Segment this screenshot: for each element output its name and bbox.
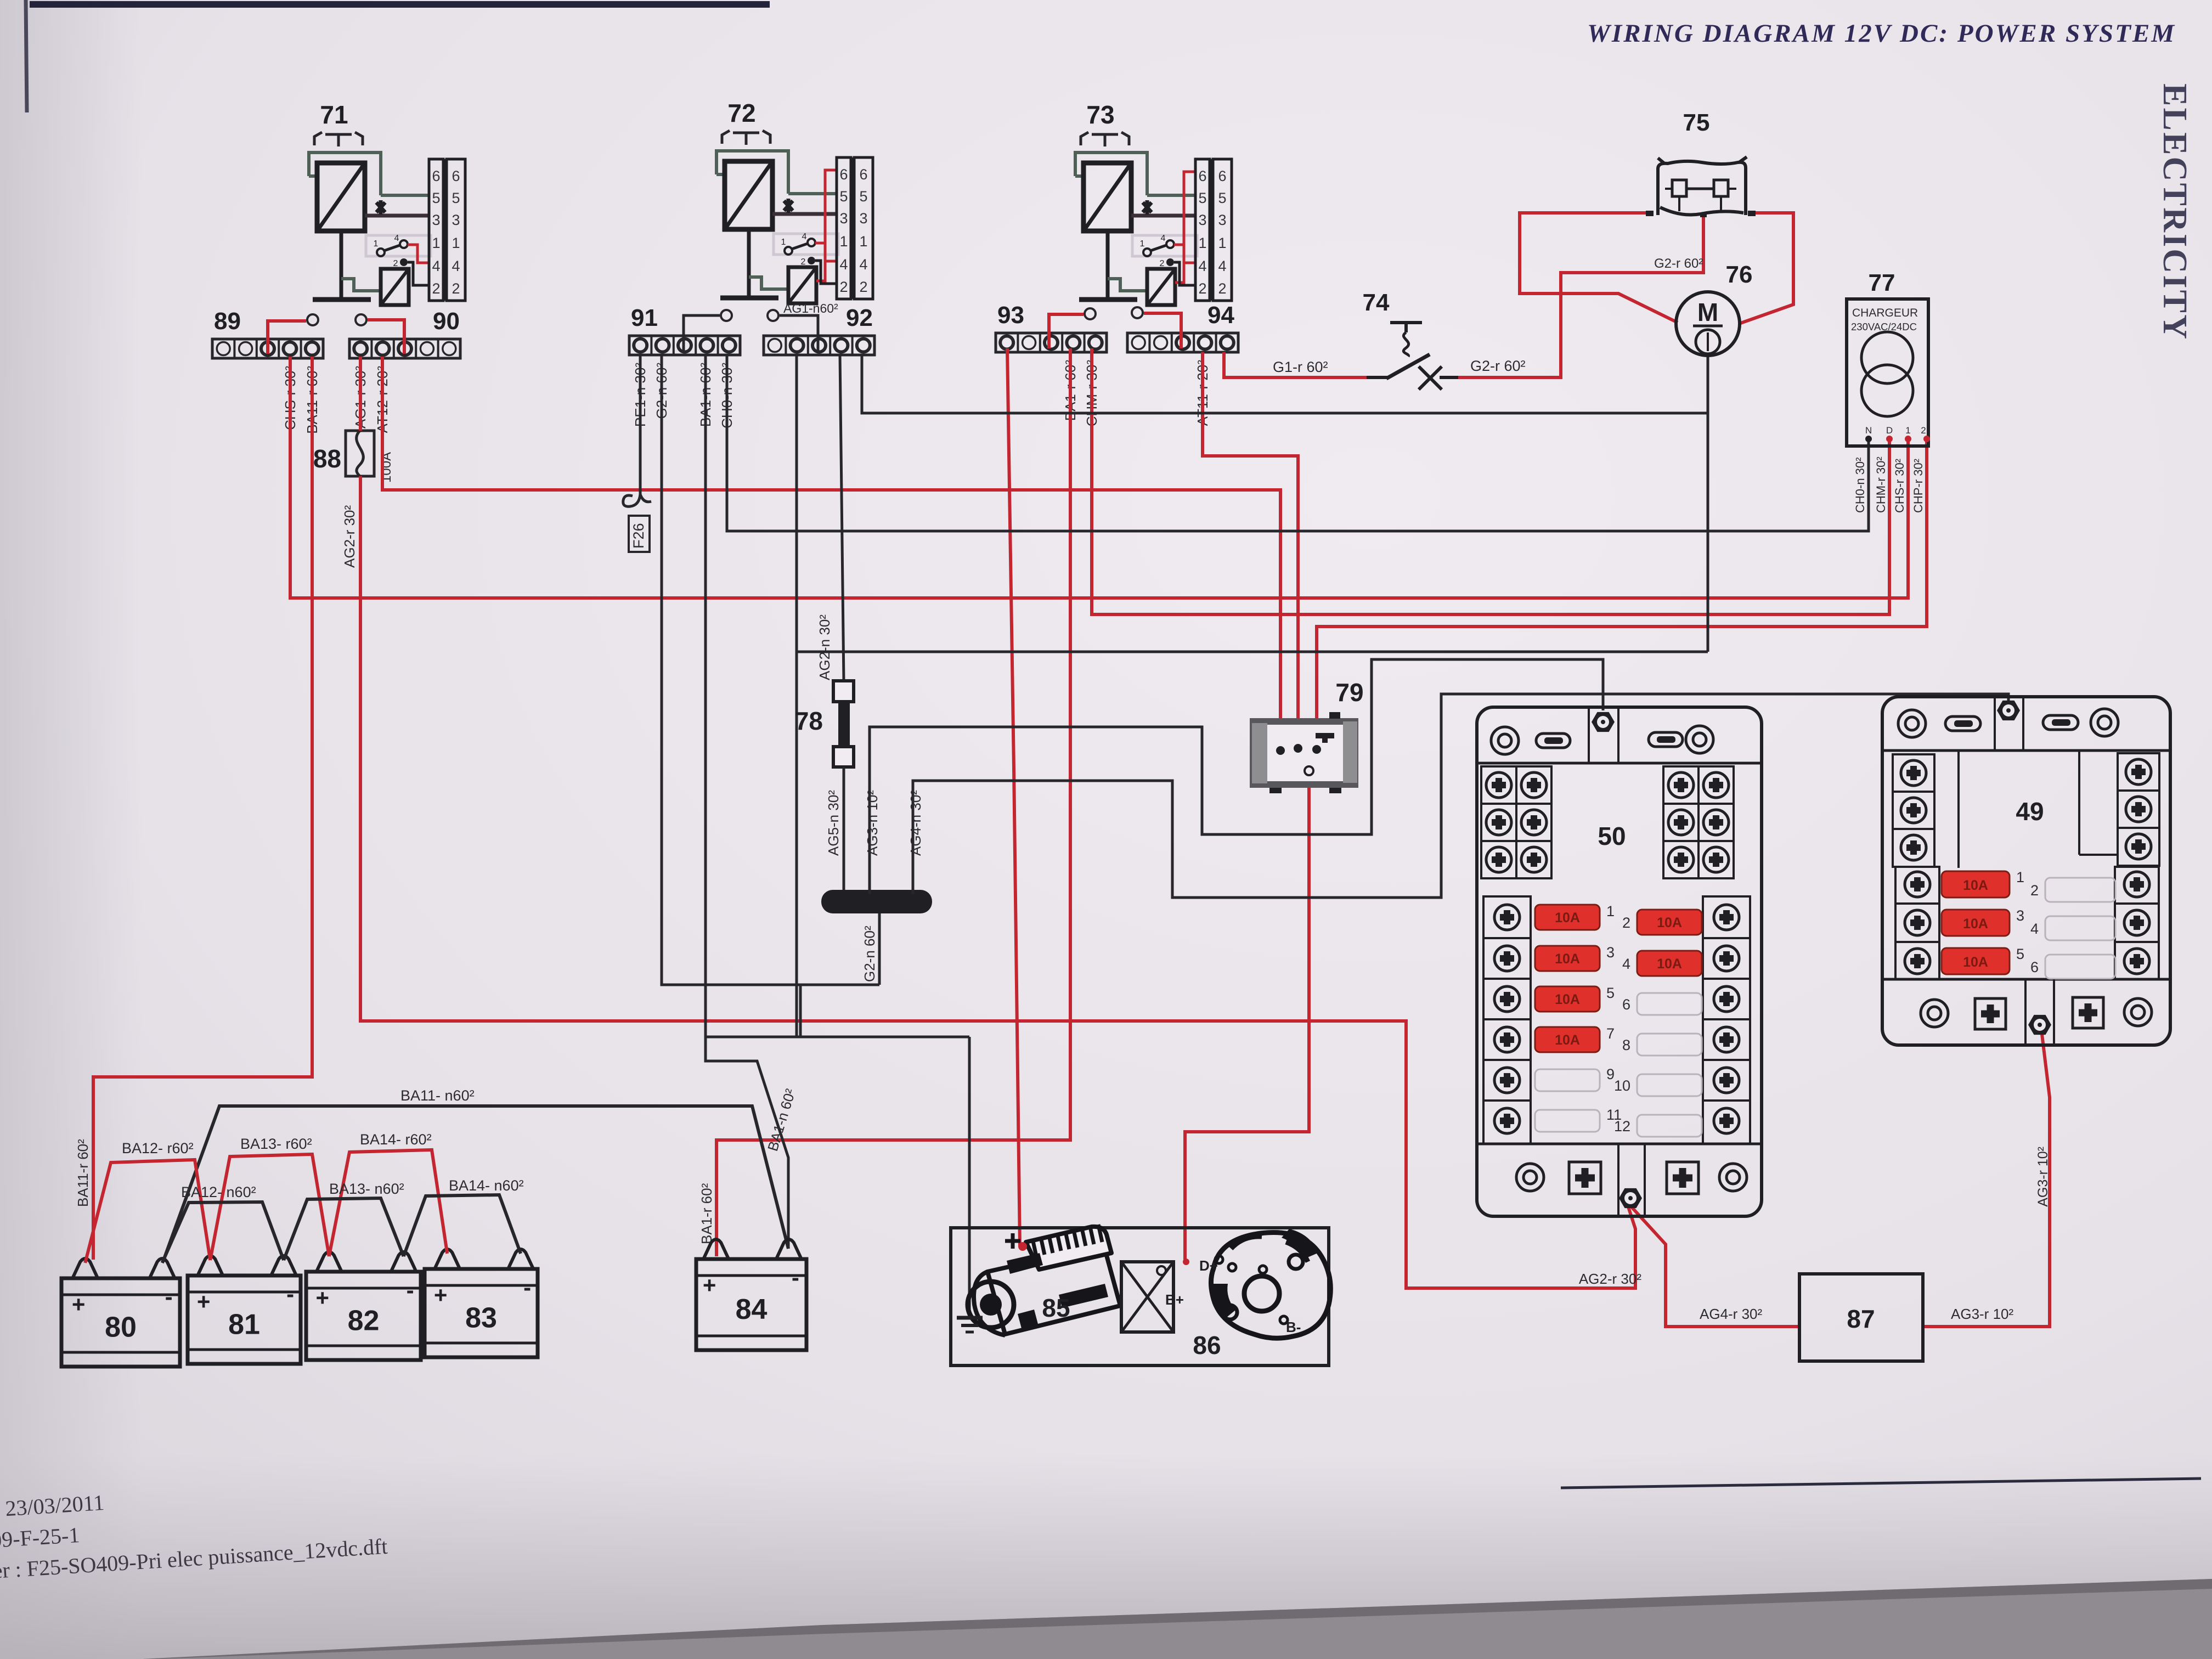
box 49 bottom bolt [2028,1015,2051,1035]
svg-text:2: 2 [839,279,848,295]
wire AG5-n 30² : connector 78 to junction bar [843,767,845,894]
svg-text:89: 89 [214,308,241,335]
svg-text:BA12- r60²: BA12- r60² [122,1140,194,1156]
battery 83 [425,1269,538,1357]
svg-text:CHP-r 30²: CHP-r 30² [1911,459,1925,513]
wire BA1-r 60² : 93.4 to battery 84 + [716,348,1070,1256]
svg-text:+: + [72,1291,86,1317]
svg-text:AG4-r 30²: AG4-r 30² [1700,1306,1762,1322]
svg-text:2: 2 [393,259,398,268]
wire BA11-n 60² : battery 80 - to battery 84 - [163,1106,788,1262]
module 73 bolt circles [1085,308,1096,319]
svg-text:3: 3 [452,212,460,228]
battery 80 [61,1278,180,1367]
svg-text:230VAC/24DC: 230VAC/24DC [1851,321,1917,332]
staircase link to negative bus [705,985,800,1037]
svg-text:B+: B+ [1165,1291,1184,1308]
svg-text:1: 1 [374,239,379,249]
svg-text:G2-r 60²: G2-r 60² [1654,256,1703,271]
svg-text:3: 3 [2016,907,2024,924]
wire BA1-n 60² : 91.4 to battery 84 - [706,355,788,1249]
motor 76 negative down to bus [1707,356,1709,413]
fuse 88 100A [346,431,374,476]
box 87 [1799,1274,1923,1361]
svg-text:AG3-r 10²: AG3-r 10² [2035,1147,2051,1207]
fuse reference F26 [623,494,651,506]
svg-text:1: 1 [839,233,848,250]
svg-text:4: 4 [1161,234,1166,243]
box 49 upper screw terminals [1893,754,1934,867]
svg-text:3: 3 [1606,944,1615,961]
svg-text:G2-n 60²: G2-n 60² [861,926,878,982]
svg-text:N: N [1865,425,1872,436]
black link 91.3 to bolt circle [684,315,720,351]
wire PE1-n 30² : 91.1 to F26 [639,355,642,494]
svg-text:2: 2 [432,280,440,297]
svg-text:+: + [316,1285,330,1311]
svg-text:1: 1 [432,235,440,251]
fuse box 49 [1882,697,2170,1045]
svg-text:5: 5 [1218,190,1226,206]
svg-text:2: 2 [2030,882,2039,899]
wire AT12-r 20² : 90.2 to connector 79 pin 1 [382,357,1280,749]
battery 84 [696,1259,806,1350]
svg-text:+: + [197,1289,211,1314]
svg-text:D: D [1886,425,1893,436]
wire BA14-r 60² : 82+ to 83+ [329,1150,447,1256]
wire relay 75 left terminal to motor 76 [1520,213,1678,323]
svg-text:77: 77 [1869,269,1895,296]
svg-text:1: 1 [1218,235,1226,251]
svg-text:BA11- n60²: BA11- n60² [400,1087,475,1104]
alternator 86 artwork [1211,1233,1330,1339]
svg-text:BA11-r 60²: BA11-r 60² [75,1139,91,1207]
wire BA13-r 60² : 81+ to 82+ [210,1154,329,1260]
svg-text:72: 72 [727,99,755,127]
svg-text:83: 83 [465,1302,497,1334]
wire CH0-n 30² : 91.5 to charger pin N [727,355,1869,531]
svg-text:4: 4 [802,232,807,241]
wire AG4-r 30² : box 50 bolt to box 87 [1630,1206,1799,1327]
wire CHM-r 30² : 93.5 to charger pin D [1092,348,1889,614]
svg-text:1: 1 [781,238,786,247]
svg-text:2: 2 [452,280,460,297]
svg-text:1: 1 [2016,869,2024,885]
svg-text:AG3-r 10²: AG3-r 10² [1951,1306,2013,1322]
svg-text:84: 84 [736,1294,768,1325]
svg-text:B-: B- [1286,1319,1301,1335]
svg-text:4: 4 [432,258,440,274]
svg-text:4: 4 [394,234,399,243]
svg-text:2: 2 [1198,280,1206,297]
svg-text:6: 6 [1198,168,1206,184]
svg-text:90: 90 [433,308,460,335]
box 50 bottom row [1516,1164,1544,1191]
svg-text:1: 1 [859,233,867,250]
red link bolt circle to 94.3 [1144,313,1181,348]
svg-text:94: 94 [1207,302,1234,329]
wire BA12-n 60² : 80- to 81- [162,1202,284,1263]
wire AG3-n 10² : junction to fuse box 50 bolt [870,659,1603,894]
wire BA13-n 60² : 81- to 82- [284,1198,404,1260]
svg-text:CHS-r 30²: CHS-r 30² [1893,459,1906,513]
svg-text:88: 88 [313,444,341,473]
svg-text:93: 93 [997,302,1024,329]
svg-text:AG2-n 30²: AG2-n 30² [816,614,833,680]
svg-text:AG3-n 10²: AG3-n 10² [864,790,881,856]
svg-text:BA14- r60²: BA14- r60² [360,1131,432,1148]
wire BA1-r 60² : 93.1 to starter + [1007,348,1020,1246]
wire 92.5 to motor negative bus [862,355,1708,413]
svg-text:2: 2 [1622,915,1630,931]
terminal strip 89 [212,339,323,358]
svg-text:G1-r 60²: G1-r 60² [1273,359,1328,375]
starter motor 85 artwork [974,1245,1120,1335]
svg-text:2: 2 [801,257,806,267]
bottom right rule [1561,1479,2201,1488]
svg-text:+: + [434,1282,448,1308]
svg-text:5: 5 [859,188,867,205]
starter ground [957,1316,983,1320]
svg-text:F26: F26 [630,523,647,549]
svg-text:6: 6 [432,168,440,184]
svg-text:3: 3 [1218,212,1226,228]
battery 82 [306,1272,421,1360]
box 50 fuse rows [1483,896,1531,1144]
svg-text:6: 6 [452,168,460,184]
svg-text:-: - [165,1284,173,1310]
svg-text:2: 2 [1160,259,1165,268]
svg-text:86: 86 [1193,1331,1221,1359]
svg-text:76: 76 [1726,261,1753,288]
svg-text:6: 6 [859,166,867,183]
wire AG4-n 30² : junction to fuse box 49 bolt [913,694,2008,898]
svg-text:AG2-r 30²: AG2-r 30² [341,505,358,568]
svg-text:BA13- n60²: BA13- n60² [329,1181,404,1197]
engine unit box (starter 85 / alternator 86) [951,1228,1329,1365]
svg-text:10A: 10A [1963,878,1988,893]
svg-text:75: 75 [1683,109,1710,136]
inline connector 78 [833,681,854,702]
svg-text:ELECTRICITY: ELECTRICITY [2156,83,2193,341]
svg-text:80: 80 [105,1312,137,1344]
svg-text:M: M [1697,298,1718,326]
box 49 mounting bolt top [1997,701,2020,720]
wire CHP-r 30² : charger pin 2 to connector 79 pin 3 [1317,440,1927,748]
svg-text:2: 2 [1218,280,1226,297]
wire AG1-r 30² : 90.1 to fuse 88 [359,357,362,431]
svg-text:6: 6 [1218,168,1226,184]
svg-text:74: 74 [1363,289,1390,316]
svg-text:5: 5 [452,190,460,206]
terminal strip 94 [1127,333,1238,352]
page bottom edge and table surface [143,1579,2212,1659]
svg-text:4: 4 [1218,258,1226,274]
bottom-left file info text [0,1472,388,1583]
svg-text:3: 3 [1198,212,1206,228]
svg-text:BA14- n60²: BA14- n60² [449,1177,524,1194]
svg-text:1: 1 [1198,235,1206,251]
svg-text:AG1-n60²: AG1-n60² [783,301,838,315]
svg-text:5: 5 [2016,946,2024,962]
red link 89.3 to bolt circle [268,321,306,354]
svg-text:+: + [703,1272,716,1298]
box 50 upper screw terminals [1481,766,1551,878]
svg-text:10A: 10A [1963,955,1988,970]
svg-text:4: 4 [839,256,848,273]
svg-text:1: 1 [1140,239,1145,249]
svg-text:CH0-n 30²: CH0-n 30² [1853,458,1867,513]
svg-text:2: 2 [1921,425,1926,436]
svg-text:4: 4 [1198,258,1206,274]
adjacent page dark bar top [30,1,770,8]
svg-text:5: 5 [1606,985,1615,1001]
svg-text:1: 1 [1606,903,1615,919]
svg-text:8: 8 [1622,1037,1630,1053]
battery 81 [188,1276,301,1364]
svg-text:4: 4 [1622,956,1630,972]
svg-text:50: 50 [1598,822,1626,850]
svg-text:10A: 10A [1657,956,1682,972]
svg-text:-: - [523,1274,531,1300]
svg-text:10A: 10A [1963,916,1988,932]
wire G2-n 60² below junction [878,913,881,985]
svg-text:1: 1 [452,235,460,251]
svg-text:5: 5 [432,190,440,206]
svg-text:49: 49 [2016,797,2044,826]
svg-text:82: 82 [348,1305,380,1337]
svg-text:10: 10 [1614,1077,1630,1094]
svg-text:9: 9 [1606,1066,1615,1082]
red link bolt circle to 90.3 [368,320,404,354]
svg-text:10A: 10A [1555,992,1580,1007]
svg-text:-: - [407,1277,414,1303]
wire AT11-r 20² : 94.4 to connector 79 pin 2 [1203,352,1298,747]
svg-text:-: - [792,1265,799,1290]
module 71 ground bar and bolt circles [307,314,318,325]
svg-text:WIRING DIAGRAM 12V DC: POWER S: WIRING DIAGRAM 12V DC: POWER SYSTEM [1587,19,2175,48]
box 49 fuse rows [1895,867,1939,979]
lower negative bus [797,651,1708,653]
svg-text:5: 5 [839,188,848,205]
svg-text:-: - [286,1281,294,1307]
svg-text:7: 7 [1606,1025,1615,1042]
svg-text:3: 3 [859,210,867,227]
svg-text:4: 4 [2030,921,2039,937]
svg-text:BA1-r 60²: BA1-r 60² [698,1183,715,1244]
wire G2-n 60² : 91.2 to junction bar stub [662,355,879,985]
negative bus to starter ground [968,1037,971,1317]
fuse box 50 [1477,707,1762,1216]
rectifier block [1121,1262,1173,1332]
red link 93.3 to bolt circle [1049,314,1084,348]
box 50 bottom bolt [1619,1188,1642,1208]
svg-text:D+: D+ [1199,1257,1218,1274]
svg-text:G2-r 60²: G2-r 60² [1470,358,1526,374]
svg-text:6: 6 [2030,959,2039,975]
module 72 bolt circles [721,310,732,321]
terminal strip 93 [996,333,1107,352]
svg-text:10A: 10A [1555,951,1580,967]
svg-text:78: 78 [795,707,823,735]
box 49 bottom row [1921,1000,1948,1027]
svg-text:BA12- n60²: BA12- n60² [181,1184,256,1200]
svg-text:AG5-n 30²: AG5-n 30² [825,790,842,856]
svg-text:3: 3 [432,212,440,228]
svg-text:5: 5 [1198,190,1206,206]
wire G2-r 60² : switch 74 to relay 75 [1457,215,1703,377]
wire AG2-r 30² : fuse 88 to fuse box 50 bolt [360,476,1635,1288]
svg-text:3: 3 [839,210,848,227]
svg-text:4: 4 [859,256,867,273]
wire BA12-r 60² : 80+ to 81+ [85,1160,210,1263]
svg-text:12: 12 [1614,1118,1630,1135]
wire BA11-r 60² : 89.5 to battery 80 + [93,357,312,1260]
svg-text:85: 85 [1042,1294,1070,1322]
svg-text:CHM-r 30²: CHM-r 30² [1874,456,1888,513]
svg-text:71: 71 [320,100,348,129]
terminal strip 90 [349,339,460,358]
svg-text:BA13- r60²: BA13- r60² [240,1136,312,1152]
svg-text:AG4-n 30²: AG4-n 30² [907,790,924,856]
wire relay 75 right terminal to motor 76 [1739,213,1793,324]
wire AG2-n 30² : 92.4 through connector 78 to junction [840,355,844,681]
wire AG2-n 30² / battery 84 minus link : 92.2 down [795,355,798,1037]
svg-text:73: 73 [1086,100,1114,129]
wire AG3-r 10² : box 49 bolt to box 87 [1923,1034,2050,1327]
svg-text:10A: 10A [1555,1032,1580,1048]
wire G1-r 60² : 94.5 to battery switch 74 [1224,352,1367,377]
svg-text:92: 92 [846,304,873,331]
svg-text:1: 1 [1905,425,1910,436]
svg-text:CHARGEUR: CHARGEUR [1852,307,1918,319]
svg-text:2: 2 [859,279,867,295]
svg-text:81: 81 [228,1309,260,1341]
terminal strip 91 [629,336,740,355]
junction bar (negative splice) [821,890,932,913]
svg-text:AG2-r 30²: AG2-r 30² [1579,1271,1641,1287]
svg-text:87: 87 [1847,1305,1875,1333]
svg-text:10A: 10A [1657,915,1682,930]
wire CHS-r 30² : 89.4 to charger pin 1 [290,357,1908,598]
wire CHP 79 bottom pin to alternator D+ [1185,772,1309,1260]
adjacent page edge left [26,0,27,112]
box 50 mounting bolt top [1592,712,1615,732]
svg-text:91: 91 [631,304,658,331]
terminal strip 92 [764,336,874,355]
svg-text:4: 4 [452,258,460,274]
svg-text:6: 6 [839,166,848,183]
svg-text:79: 79 [1335,678,1363,707]
wire BA14-n 60² : 82- to 83- [404,1195,521,1256]
svg-text:10A: 10A [1555,910,1580,926]
svg-text:6: 6 [1622,996,1630,1013]
black link bolt circle to 92.3 AG1-n60² [780,315,818,351]
